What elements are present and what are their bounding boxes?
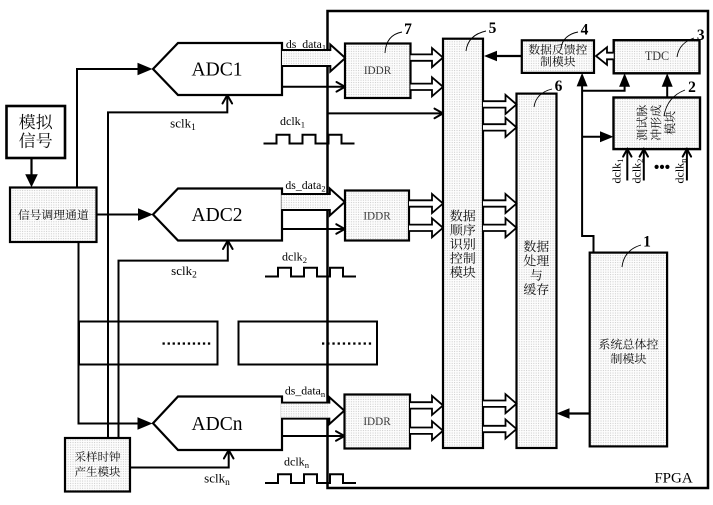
arrow IDDR2 out lower bbox=[409, 218, 443, 237]
arrow block5-6 level3 lower bbox=[483, 420, 517, 439]
arrow IDDR1 out lower bbox=[411, 77, 444, 96]
svg-text:ADC1: ADC1 bbox=[192, 60, 243, 81]
label dclk2 rotated bbox=[630, 159, 646, 184]
wire block1 up to block4 bbox=[582, 78, 593, 253]
svg-text:3: 3 bbox=[697, 27, 705, 44]
wire block2 top to TDC bbox=[666, 79, 668, 98]
arrow block5-6 level3 upper bbox=[483, 394, 517, 413]
wire dclkn into block2 bbox=[686, 151, 688, 181]
fat arrow ds_data1 bbox=[282, 45, 345, 72]
block 4 data-feedback-control (数据反馈控制模块) bbox=[522, 40, 594, 73]
box signal-conditioning (信号调理通道) bbox=[10, 188, 97, 243]
box analog-signal (模拟信号) bbox=[7, 106, 66, 158]
wire ADCn lower to IDDR3 bbox=[281, 435, 344, 437]
arrow IDDR2 out upper bbox=[409, 194, 443, 213]
wire conditioning to ADC1 bbox=[77, 69, 141, 188]
wire dclk1 to block5 bbox=[328, 112, 443, 114]
arrow TDC to block4 bbox=[596, 47, 614, 65]
svg-text:4: 4 bbox=[581, 22, 589, 39]
wire block1 to block6 bbox=[569, 412, 590, 414]
wire branch to TDC bottom bbox=[582, 79, 625, 91]
svg-text:1: 1 bbox=[643, 234, 651, 251]
block 6 data-processing-buffer (数据处理与缓存) bbox=[517, 94, 557, 448]
svg-text:IDDR: IDDR bbox=[363, 416, 391, 428]
label dclk1 rotated bbox=[610, 159, 626, 184]
svg-text:2: 2 bbox=[688, 79, 696, 96]
arrow analog to conditioning bbox=[30, 158, 32, 176]
svg-text:IDDR: IDDR bbox=[363, 211, 391, 223]
dots placeholder-left bbox=[163, 342, 165, 344]
IDDR block 7 (top) bbox=[345, 44, 411, 99]
wire conditioning to ADCn bbox=[79, 242, 142, 424]
block 3 TDC bbox=[614, 40, 700, 73]
svg-text:5: 5 bbox=[489, 20, 497, 37]
wire sclkn bbox=[130, 451, 229, 468]
arrow block5-6 level2 upper bbox=[483, 194, 517, 213]
svg-text:6: 6 bbox=[555, 78, 563, 95]
FPGA boundary box bbox=[328, 11, 709, 488]
svg-text:ADCn: ADCn bbox=[192, 414, 243, 435]
svg-text:ADC2: ADC2 bbox=[192, 205, 243, 226]
wire sclk1 bbox=[108, 96, 227, 438]
arrow block5-6 level1 upper bbox=[483, 95, 517, 114]
svg-text:ds_datan: ds_datan bbox=[285, 384, 326, 400]
arrow IDDR3 out upper bbox=[410, 396, 443, 415]
box placeholder-left bbox=[79, 322, 218, 365]
arrow block5-6 level2 lower bbox=[483, 218, 517, 237]
box placeholder-right bbox=[239, 322, 378, 365]
dots between dclk labels bbox=[655, 165, 659, 169]
wire branch to block2 left bbox=[582, 136, 607, 138]
svg-text:ds_data2: ds_data2 bbox=[285, 178, 325, 194]
ADC2 bbox=[153, 189, 282, 241]
block 1 system-overall-control (系统总体控制模块) bbox=[590, 253, 667, 447]
fat arrow ds_data2 bbox=[281, 189, 344, 216]
waveform dclk2 bbox=[265, 268, 356, 277]
fat arrow ds_datan bbox=[281, 397, 344, 424]
svg-text:IDDR: IDDR bbox=[364, 65, 392, 77]
wire sclk2 bbox=[119, 242, 228, 439]
IDDR block (middle) bbox=[345, 191, 409, 241]
arrow block4 to block5 bbox=[496, 55, 522, 57]
arrow IDDR3 out lower bbox=[410, 421, 443, 440]
arrow IDDR1 out upper bbox=[411, 48, 444, 67]
box sample-clock-gen (采样时钟产生模块) bbox=[65, 438, 130, 492]
svg-text:7: 7 bbox=[404, 21, 412, 38]
ADCn bbox=[153, 397, 282, 451]
waveform dclkn bbox=[265, 474, 356, 483]
wire dclk2 into block2 bbox=[643, 151, 645, 181]
ADC1 bbox=[153, 43, 282, 95]
waveform dclk1 bbox=[264, 135, 355, 144]
block 2 test-pulse-forming (测试脉冲形成模块) bbox=[614, 98, 701, 150]
dots placeholder-right bbox=[322, 342, 324, 344]
svg-text:ds_data1: ds_data1 bbox=[286, 37, 326, 53]
svg-text:TDC: TDC bbox=[645, 49, 669, 63]
block 5 data-order-recognition (数据顺序识别控制模块) bbox=[443, 39, 483, 448]
arrow block5-6 level1 lower bbox=[483, 118, 517, 137]
svg-text:FPGA: FPGA bbox=[654, 471, 693, 487]
wire dclk1 into block2 bbox=[626, 151, 628, 181]
wire ADC2 lower to IDDR2 bbox=[281, 228, 344, 230]
IDDR block (bottom) bbox=[345, 395, 411, 449]
wire conditioning to ADC2 bbox=[97, 214, 142, 216]
wire ADC1 lower to IDDR1 bbox=[282, 86, 344, 88]
label dclkn rotated bbox=[673, 158, 689, 184]
